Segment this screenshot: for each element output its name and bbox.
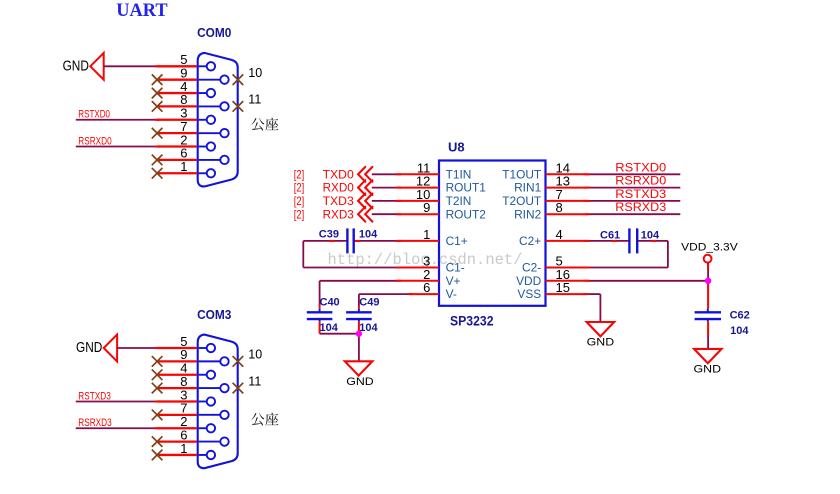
svg-text:C1-: C1- (446, 261, 465, 275)
svg-text:T1OUT: T1OUT (502, 167, 541, 181)
svg-text:ROUT1: ROUT1 (446, 181, 487, 195)
svg-text:C40: C40 (320, 297, 340, 309)
svg-text:U8: U8 (448, 140, 465, 155)
svg-text:1: 1 (423, 227, 430, 242)
svg-text:1: 1 (180, 441, 187, 456)
svg-text:11: 11 (248, 93, 261, 107)
svg-text:VSS: VSS (517, 287, 541, 301)
svg-text:V-: V- (446, 287, 457, 301)
svg-text:VDD_3.3V: VDD_3.3V (681, 242, 738, 254)
svg-text:T1IN: T1IN (446, 167, 472, 181)
svg-text:[2]: [2] (294, 167, 305, 181)
svg-text:TXD3: TXD3 (323, 194, 355, 208)
svg-text:T2OUT: T2OUT (502, 194, 541, 208)
svg-text:104: 104 (359, 322, 378, 334)
svg-text:GND: GND (587, 336, 615, 348)
svg-text:V+: V+ (446, 274, 461, 288)
svg-text:ROUT2: ROUT2 (446, 207, 487, 221)
svg-text:RSTXD3: RSTXD3 (615, 187, 666, 201)
svg-text:104: 104 (320, 322, 339, 334)
svg-text:RXD0: RXD0 (323, 181, 355, 195)
svg-text:RSRXD0: RSRXD0 (615, 174, 666, 188)
svg-text:C2-: C2- (522, 261, 541, 275)
svg-text:9: 9 (423, 200, 430, 215)
svg-text:RSTXD0: RSTXD0 (78, 109, 110, 121)
svg-text:C62: C62 (730, 309, 750, 321)
svg-text:T2IN: T2IN (446, 194, 472, 208)
svg-text:RIN1: RIN1 (514, 181, 541, 195)
svg-text:1: 1 (180, 159, 187, 174)
svg-text:8: 8 (556, 200, 563, 215)
svg-text:GND: GND (346, 376, 374, 388)
svg-text:[2]: [2] (294, 207, 305, 221)
svg-text:104: 104 (359, 229, 378, 241)
svg-text:C49: C49 (359, 297, 379, 309)
svg-text:C2+: C2+ (519, 234, 541, 248)
svg-text:10: 10 (248, 66, 262, 80)
svg-text:4: 4 (556, 227, 563, 242)
svg-text:COM3: COM3 (197, 307, 231, 322)
svg-text:6: 6 (423, 280, 430, 295)
svg-text:104: 104 (641, 229, 660, 241)
svg-text:[2]: [2] (294, 194, 305, 208)
svg-text:104: 104 (730, 325, 749, 337)
svg-text:GND: GND (76, 340, 102, 356)
svg-text:[2]: [2] (294, 181, 305, 195)
svg-text:RSRXD0: RSRXD0 (78, 135, 111, 147)
svg-text:C39: C39 (319, 229, 339, 241)
svg-text:RSTXD3: RSTXD3 (78, 390, 111, 402)
svg-text:C1+: C1+ (446, 234, 468, 248)
svg-text:RSRXD3: RSRXD3 (78, 417, 111, 429)
svg-text:15: 15 (556, 280, 570, 295)
svg-text:11: 11 (248, 374, 261, 388)
svg-text:SP3232: SP3232 (450, 314, 494, 329)
svg-text:GND: GND (694, 363, 722, 375)
svg-text:COM0: COM0 (197, 25, 231, 40)
svg-text:10: 10 (248, 348, 262, 362)
svg-text:RIN2: RIN2 (514, 207, 541, 221)
svg-text:TXD0: TXD0 (323, 167, 355, 181)
svg-text:RSRXD3: RSRXD3 (615, 200, 666, 214)
svg-text:UART: UART (116, 0, 168, 21)
svg-text:VDD: VDD (516, 274, 542, 288)
svg-text:GND: GND (63, 59, 89, 75)
svg-text:C61: C61 (600, 229, 620, 241)
svg-text:RSTXD0: RSTXD0 (615, 160, 666, 174)
svg-text:RXD3: RXD3 (323, 207, 355, 221)
